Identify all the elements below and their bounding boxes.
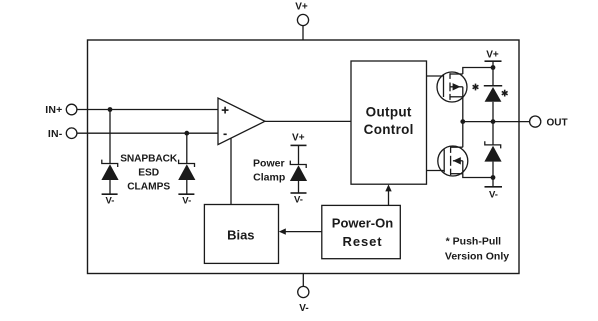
junction dot node B (IN-) (184, 131, 189, 136)
diode D3 (push-pull) (484, 68, 502, 122)
block Bias (204, 205, 278, 264)
svg-text:Power: Power (253, 157, 285, 169)
asterisk for D3 (502, 90, 508, 97)
wire IN- to op-amp (77, 132, 218, 134)
output node row wire (463, 121, 530, 123)
svg-text:SNAPBACK: SNAPBACK (120, 154, 178, 165)
svg-text:CLAMPS: CLAMPS (127, 182, 170, 193)
asterisk for Q1 (473, 84, 479, 91)
svg-text:IN+: IN+ (45, 104, 62, 116)
op-amp U1 (218, 98, 265, 145)
transistor Q1 PMOS (437, 72, 467, 102)
note Push-Pull Version Only (445, 236, 509, 263)
wire drain Q1 to V+ node (463, 68, 493, 75)
snapback ESD clamp diode D1 (101, 110, 118, 207)
block Power-On Reset (322, 205, 401, 258)
wire source Q1 to output node (462, 97, 464, 122)
V- rail of output stage (485, 175, 503, 200)
junction dot V+ node (491, 65, 496, 70)
terminal IN- (48, 128, 77, 140)
terminal V+ top (295, 1, 308, 40)
svg-text:V-: V- (299, 303, 308, 314)
svg-text:Output: Output (366, 104, 412, 119)
svg-text:V-: V- (106, 196, 115, 207)
wire gate of Q2 (427, 170, 445, 172)
junction dot node A (IN+) (108, 107, 113, 112)
wire drain Q2 to output node (462, 122, 464, 148)
svg-text:Bias: Bias (227, 227, 254, 242)
svg-text:Control: Control (364, 122, 414, 137)
svg-text:Clamp: Clamp (253, 172, 285, 184)
junction dot output node left (460, 119, 465, 124)
svg-text:V-: V- (294, 194, 303, 205)
wire POR to Output Control with arrowhead (385, 184, 391, 205)
transistor Q2 NMOS (438, 146, 468, 176)
svg-text:Power-On: Power-On (332, 216, 393, 231)
terminal OUT (530, 116, 568, 128)
svg-text:OUT: OUT (547, 117, 568, 128)
wire op-amp V- pin down to Bias (230, 138, 232, 204)
zener diode D4 (484, 122, 501, 178)
svg-text:Reset: Reset (343, 234, 383, 249)
svg-text:V-: V- (182, 196, 191, 207)
svg-text:IN-: IN- (48, 128, 63, 140)
IC boundary box (88, 40, 520, 274)
V+ rail of output stage (485, 50, 502, 68)
svg-text:* Push-Pull: * Push-Pull (446, 236, 502, 248)
junction dot output node right (491, 119, 496, 124)
svg-text:V+: V+ (486, 50, 499, 61)
wire gate of Q1 (427, 75, 444, 77)
wire IN+ to op-amp (77, 109, 218, 111)
terminal V- bottom (298, 274, 309, 315)
wire op-amp output to Output Control (265, 120, 351, 122)
wire source Q2 to V- node (463, 174, 493, 178)
svg-text:V+: V+ (292, 132, 305, 143)
wire POR to Bias with arrowhead (279, 228, 322, 234)
label Power Clamp (253, 157, 285, 183)
power clamp diode (290, 132, 307, 205)
svg-text:Version Only: Version Only (445, 250, 509, 262)
terminal IN+ (45, 104, 77, 116)
block Output Control (351, 61, 427, 184)
svg-text:V-: V- (489, 189, 498, 200)
snapback ESD clamp diode D2 (178, 133, 195, 206)
svg-text:V+: V+ (295, 1, 308, 12)
label SNAPBACK ESD CLAMPS (120, 154, 178, 193)
svg-text:ESD: ESD (138, 168, 159, 179)
